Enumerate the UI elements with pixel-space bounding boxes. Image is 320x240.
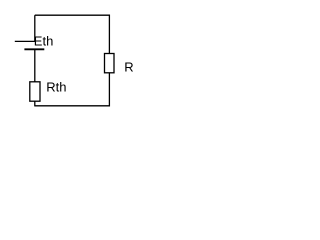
battery Eth <box>15 41 45 49</box>
resistor R <box>105 54 115 73</box>
svg-text:Rth: Rth <box>46 80 66 95</box>
svg-text:R: R <box>124 60 133 75</box>
wire battery negative to Rth <box>34 49 36 82</box>
resistor Rth <box>30 82 40 101</box>
wire Rth bottom lead <box>34 101 36 106</box>
wire right upper <box>108 15 110 54</box>
wire top <box>35 14 110 16</box>
wire bottom <box>35 105 110 107</box>
wire right lower <box>108 73 110 107</box>
svg-text:Eth: Eth <box>34 34 54 49</box>
wire battery positive to top-left corner <box>34 15 36 41</box>
